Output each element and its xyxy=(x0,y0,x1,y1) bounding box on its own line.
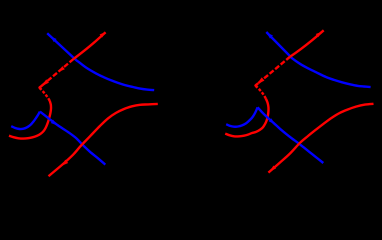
red hook curving down and sweeping left xyxy=(9,101,51,139)
arrowhead near red tip (right) xyxy=(316,32,322,37)
arrow on red lower branch (right) xyxy=(270,166,276,172)
red dashed segment from X to corner xyxy=(40,59,74,88)
red lower branch xyxy=(49,104,158,176)
red hook upper part (finely dashed, right) xyxy=(256,86,266,99)
blue descending line from fold peak (right) xyxy=(258,107,324,163)
red hook (right) xyxy=(225,99,268,137)
corner vertex of red manifold xyxy=(40,85,43,89)
arrowhead near blue tip (right) xyxy=(267,32,273,38)
red lower branch (right) xyxy=(268,104,373,173)
arrow on blue descending line xyxy=(51,120,57,126)
arrow near corner on dashed red segment (right) xyxy=(257,77,265,84)
red dashed segment from X to corner (right) xyxy=(256,57,291,86)
arrow on red lower branch xyxy=(62,160,68,166)
arrow near corner on dashed red segment xyxy=(41,79,49,86)
arrow on dashed red segment xyxy=(59,66,65,72)
blue descending line from fold peak xyxy=(40,112,105,165)
corner vertex of red manifold (right) xyxy=(256,83,259,87)
blue fold arc in pocket (right) xyxy=(226,107,257,126)
blue stable manifold upper branch (right) xyxy=(266,32,370,87)
blue fold arc in pocket xyxy=(11,112,40,129)
arrowhead near blue tip xyxy=(50,36,56,42)
red hook upper part (finely dashed) xyxy=(40,88,50,101)
red unstable manifold upper branch (solid from tip to X) xyxy=(74,32,106,59)
blue stable manifold upper branch xyxy=(47,33,154,90)
arrow on blue descending line (right) xyxy=(269,118,275,124)
arrowhead near red tip xyxy=(100,32,106,38)
red unstable manifold upper branch (right) xyxy=(290,30,324,56)
